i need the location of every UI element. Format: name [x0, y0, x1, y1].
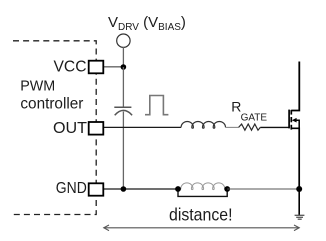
capacitor C_bypass — [114, 107, 132, 115]
wire: resistor to MOSFET gate — [260, 126, 288, 128]
source connection — [291, 128, 299, 189]
IC outline (dashed box, open left) — [13, 41, 96, 215]
svg-text:PWM: PWM — [20, 77, 55, 94]
pin VCC box — [89, 61, 104, 74]
ground trace (straight bar under coil) — [178, 189, 227, 196]
pulse waveform annotation — [145, 96, 168, 115]
wire: VDRV circle down to VCC node — [122, 47, 124, 67]
wire: node down to capacitor top — [122, 67, 124, 107]
wire: VCC pin to node — [104, 66, 123, 68]
junction node: capacitor to GND rail — [121, 186, 127, 192]
gate bar — [288, 110, 290, 129]
MOSFET body arrow — [292, 118, 297, 123]
channel segment (source side) — [290, 125, 292, 130]
dimension arrow (distance) — [104, 225, 299, 231]
junction node: source/ground — [296, 186, 302, 192]
svg-text:controller: controller — [20, 95, 83, 112]
svg-text:VCC: VCC — [54, 59, 87, 76]
MOSFET Q1 — [289, 62, 299, 190]
wire: L_gnd to MOSFET source node — [227, 188, 299, 190]
resistor R_GATE — [239, 124, 261, 130]
wire: inductor to resistor — [226, 126, 239, 128]
channel segment (drain side) — [290, 110, 292, 115]
wire: capacitor bottom down to GND rail (crosses OUT wire, no dot) — [122, 112, 124, 190]
junction node VCC/VDRV — [121, 64, 127, 70]
junction node: right end of L_gnd — [224, 186, 230, 192]
junction node: left end of L_gnd — [175, 186, 181, 192]
wire: OUT pin to inductor — [104, 126, 181, 128]
pin GND box — [89, 183, 104, 195]
inductor L_gate (gate trace inductance) — [181, 122, 225, 129]
ground symbol — [295, 215, 305, 219]
wire: node down to ground symbol — [298, 189, 300, 215]
drain connection — [291, 62, 299, 111]
svg-text:GATE: GATE — [241, 113, 268, 124]
pin OUT box — [89, 122, 104, 135]
body connection — [296, 120, 300, 128]
inductor L_gnd coil (ground trace inductance) — [178, 183, 227, 190]
svg-text:OUT: OUT — [53, 120, 87, 137]
wire: GND pin to bottom inductor — [104, 188, 178, 190]
svg-text:distance!: distance! — [169, 205, 233, 225]
channel segment (body) — [290, 117, 292, 122]
terminal VDRV (circle) — [117, 34, 130, 47]
svg-text:GND: GND — [56, 180, 87, 197]
